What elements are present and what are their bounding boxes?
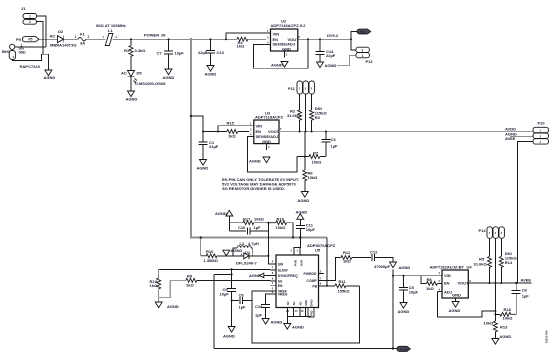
- svg-text:P11: P11: [288, 86, 296, 91]
- junction dots on rail: [130, 38, 132, 40]
- svg-text:22µF: 22µF: [326, 53, 336, 58]
- inductor L2 4.7uH: [233, 241, 259, 256]
- svg-text:10µF: 10µF: [409, 290, 419, 295]
- svg-text:R12: R12: [343, 250, 351, 255]
- capacitor C1 22uF: [199, 132, 219, 160]
- svg-text:GND: GND: [452, 292, 461, 297]
- svg-text:10kΩ: 10kΩ: [308, 175, 319, 180]
- svg-text:ADP7118ACPZ-5.2: ADP7118ACPZ-5.2: [271, 23, 307, 28]
- svg-text:R14: R14: [505, 260, 513, 265]
- wire J1 pin1 to vertical: [37, 16, 47, 47]
- capacitor C8 1uF: [232, 293, 252, 310]
- svg-text:1: 1: [362, 54, 364, 58]
- wire PVIN gray vertical to FB: [326, 238, 328, 286]
- wire gray R9 ground jog: [159, 280, 171, 297]
- svg-text:AGND: AGND: [249, 273, 261, 278]
- svg-text:1µF: 1µF: [331, 144, 339, 149]
- svg-text:1kΩ: 1kΩ: [228, 134, 236, 139]
- svg-text:TLMS1000-GS08: TLMS1000-GS08: [134, 81, 166, 86]
- svg-text:10kΩ: 10kΩ: [503, 315, 514, 320]
- svg-text:R9: R9: [187, 273, 193, 278]
- capacitor C13 22uF: [198, 39, 225, 65]
- svg-text:AGND: AGND: [296, 209, 308, 214]
- svg-text:1kΩ: 1kΩ: [237, 44, 245, 49]
- capacitor C16 1uF: [229, 223, 268, 264]
- svg-text:AGND: AGND: [298, 198, 310, 203]
- svg-text:VIN: VIN: [444, 273, 451, 278]
- svg-text:1: 1: [29, 15, 31, 19]
- wire EN drop + R8: [421, 276, 427, 284]
- svg-text:P5: P5: [16, 37, 22, 42]
- wire ADJ loop: [437, 292, 495, 318]
- connector P14: [479, 227, 505, 239]
- svg-text:SYNC/FREQ: SYNC/FREQ: [278, 274, 298, 278]
- svg-text:AGND: AGND: [205, 72, 217, 77]
- wire P14 pin2 to R13 node: [494, 283, 496, 321]
- resistor R6 10k: [303, 170, 318, 192]
- svg-text:U5: U5: [315, 248, 321, 253]
- wire 5V2 tag branch: [351, 32, 360, 40]
- svg-text:AGND: AGND: [399, 265, 411, 270]
- svg-text:VIN: VIN: [273, 32, 280, 37]
- svg-text:GND: GND: [19, 51, 27, 55]
- battery holder BH1 RAPC722X: [2, 44, 41, 69]
- wire gray POWER_IN feed (bottom): [190, 237, 327, 239]
- svg-text:31.6kΩ: 31.6kΩ: [474, 261, 488, 266]
- svg-text:10µF: 10µF: [220, 292, 230, 297]
- ground tag AGND (SYNC): [249, 273, 271, 278]
- resistor R7 10k: [297, 151, 326, 165]
- svg-text:GND: GND: [304, 300, 308, 306]
- svg-text:3A: 3A: [80, 41, 85, 46]
- ground AGND (C5): [398, 303, 410, 314]
- wire POWER_IN rail: [113, 38, 238, 40]
- svg-text:VREG: VREG: [278, 293, 288, 297]
- ground AGND (R13): [492, 334, 511, 344]
- svg-text:VIN: VIN: [256, 123, 263, 128]
- svg-text:VOUT: VOUT: [458, 281, 470, 286]
- svg-text:AGND: AGND: [398, 309, 410, 314]
- svg-text:P12: P12: [366, 59, 374, 64]
- resistor R10 1.35M: [201, 249, 233, 263]
- capacitor C9 10uF: [220, 268, 237, 326]
- wire GND bus under U5: [287, 316, 311, 318]
- svg-text:10µF: 10µF: [306, 227, 316, 232]
- wire VIN loop U2: [226, 33, 266, 39]
- capacitor C6 1uF: [512, 283, 530, 314]
- svg-text:1µF: 1µF: [255, 313, 263, 318]
- svg-text:AVEE: AVEE: [521, 278, 532, 283]
- svg-text:AC: AC: [50, 34, 56, 39]
- wire gray AVDD rail: [279, 131, 533, 133]
- svg-text:16101-006: 16101-006: [545, 330, 549, 343]
- capacitor C5 10uF: [399, 276, 419, 303]
- svg-text:AGND: AGND: [292, 325, 304, 330]
- svg-text:AGND: AGND: [223, 334, 235, 339]
- wire SENSE loop U3: [248, 137, 298, 172]
- wire jack SIG to node: [15, 46, 46, 48]
- svg-text:PAD: PAD: [309, 310, 313, 315]
- svg-text:EN: EN: [278, 284, 283, 288]
- svg-text:A: A: [241, 252, 243, 256]
- svg-text:PGND: PGND: [400, 348, 408, 352]
- svg-text:31.6kΩ: 31.6kΩ: [287, 113, 301, 118]
- ground AGND (C12): [390, 262, 411, 270]
- svg-text:ADP7118ACPZ: ADP7118ACPZ: [255, 115, 284, 120]
- ground AGND (D5): [126, 91, 138, 102]
- svg-text:AC: AC: [121, 71, 127, 76]
- svg-text:C8: C8: [239, 293, 245, 298]
- svg-text:GND: GND: [262, 139, 271, 144]
- svg-text:NC: NC: [286, 301, 290, 305]
- wire SLEW line: [159, 268, 271, 270]
- svg-text:10kΩ: 10kΩ: [312, 160, 323, 165]
- wire P11 pin1: [299, 94, 301, 110]
- svg-text:10kΩ: 10kΩ: [484, 321, 495, 326]
- svg-text:22µF: 22µF: [209, 144, 219, 149]
- op-amp U4 ADP7182AUJZ: [430, 264, 474, 301]
- svg-text:NC: NC: [292, 301, 296, 305]
- resistor R18b 10k: [495, 307, 516, 320]
- svg-text:AGND: AGND: [325, 63, 337, 68]
- svg-text:ADP5070ACPZ: ADP5070ACPZ: [307, 243, 336, 248]
- wire gray POWER_IN feed (vertical): [190, 39, 192, 237]
- wire U3 VIN loop: [218, 126, 249, 132]
- resistor R15 1k: [227, 121, 250, 139]
- wire R6 column: [304, 132, 306, 171]
- svg-text:FB: FB: [313, 284, 318, 288]
- svg-text:L1: L1: [108, 28, 113, 33]
- svg-text:SLEW: SLEW: [278, 268, 289, 272]
- svg-text:10kΩ: 10kΩ: [276, 225, 287, 230]
- ground AGND (jack): [44, 70, 56, 80]
- ground AGND (U2): [271, 62, 288, 68]
- svg-text:3.3kΩ: 3.3kΩ: [135, 48, 147, 53]
- wire P5 to rail: [39, 38, 57, 40]
- resistor R18 10k (snubber): [267, 217, 294, 239]
- resistor R1 3.3k: [124, 39, 146, 70]
- svg-text:J1: J1: [21, 6, 26, 11]
- resistor R3 115k DNI: [310, 94, 328, 133]
- svg-text:DFLS240-7: DFLS240-7: [236, 261, 257, 266]
- diode D1 DFLS240-7: [233, 250, 271, 266]
- svg-text:COMP: COMP: [307, 279, 318, 283]
- ground AGND (C14): [317, 62, 337, 68]
- svg-text:AGND: AGND: [271, 63, 283, 68]
- capacitor C7 10uF: [157, 39, 185, 69]
- capacitor C10 1uF: [255, 304, 270, 319]
- svg-text:1µF: 1µF: [239, 305, 247, 310]
- svg-text:MBRA140T3G: MBRA140T3G: [50, 43, 76, 48]
- svg-text:C13: C13: [217, 50, 225, 55]
- svg-text:ADP7182AUJZ-BT: ADP7182AUJZ-BT: [430, 264, 465, 269]
- svg-text:DV5.2: DV5.2: [327, 33, 339, 38]
- wire PVIN drop to U5: [294, 238, 301, 256]
- wire P14 pin2: [494, 238, 496, 283]
- svg-text:10µF: 10µF: [175, 51, 185, 56]
- svg-text:R1: R1: [124, 48, 130, 53]
- svg-text:PWRGD: PWRGD: [304, 272, 318, 276]
- svg-text:RAPC722X: RAPC722X: [20, 64, 41, 69]
- svg-text:SW: SW: [278, 263, 284, 267]
- wire DV5.2 rail: [302, 38, 351, 40]
- svg-text:AVIN: AVIN: [299, 260, 303, 266]
- capacitor C12 47000pF: [370, 249, 393, 268]
- wire branch to U3 input: [191, 116, 203, 132]
- svg-text:AGND: AGND: [231, 248, 243, 253]
- svg-text:C3: C3: [331, 137, 337, 142]
- svg-text:1µF: 1µF: [254, 225, 262, 230]
- LED D5 TLMS1000-GS08: [121, 71, 166, 92]
- ground AGND (C13): [205, 66, 217, 77]
- svg-text:EN: EN: [444, 281, 450, 286]
- op-amp U3 ADP7118ACPZ: [249, 111, 284, 151]
- svg-text:P5: P5: [29, 38, 33, 42]
- svg-text:AGND: AGND: [500, 334, 512, 339]
- svg-text:F1: F1: [80, 32, 85, 37]
- ground AGND (R19): [155, 297, 179, 309]
- wire FB line: [324, 285, 335, 287]
- connector P11: [288, 81, 314, 94]
- wire VREG to C10: [266, 294, 276, 305]
- svg-text:R18: R18: [504, 307, 512, 312]
- wire U4 VIN line: [393, 275, 442, 277]
- wire AGND drop column: [392, 270, 394, 349]
- svg-text:1kΩ: 1kΩ: [426, 286, 434, 291]
- note text EN pin: [222, 177, 299, 191]
- resistor R9 1k: [170, 273, 270, 287]
- resistor R11 155k: [335, 279, 360, 293]
- svg-text:5V2: 5V2: [361, 30, 367, 34]
- svg-text:2: 2: [362, 49, 364, 53]
- ground AGND (U3): [249, 157, 270, 164]
- svg-text:10kΩ: 10kΩ: [254, 217, 265, 222]
- svg-text:C12: C12: [370, 249, 378, 254]
- svg-text:2: 2: [88, 35, 90, 39]
- svg-text:U4: U4: [467, 264, 473, 269]
- svg-text:D5: D5: [137, 71, 143, 76]
- wire SENSE feedback loop U2: [253, 39, 308, 68]
- wire fuse to L1: [86, 38, 106, 40]
- resistor R5 31.6k: [474, 238, 492, 283]
- svg-text:AGND: AGND: [449, 308, 461, 313]
- connector P12: [356, 47, 373, 64]
- svg-text:D2: D2: [58, 29, 64, 34]
- regulator U5 ADP5070ACPZ: [271, 243, 336, 317]
- wire to P12: [351, 39, 356, 50]
- wire P12 pin1 to AGND: [350, 55, 356, 65]
- wire VREF loop rectangle: [252, 286, 360, 343]
- resistor R13 10k: [484, 321, 509, 339]
- svg-text:ADJ: ADJ: [444, 289, 452, 294]
- svg-text:1µF: 1µF: [522, 293, 530, 298]
- wire jack GND loop: [12, 54, 48, 70]
- wire from gray to R10: [200, 238, 202, 256]
- wire D2 to fuse: [64, 38, 78, 40]
- wire J1 pin2 to vertical: [37, 22, 44, 55]
- svg-text:1.35MΩ: 1.35MΩ: [204, 258, 219, 263]
- wire negative rail bottom: [214, 348, 400, 350]
- svg-text:VOUT: VOUT: [288, 37, 300, 42]
- svg-text:C7: C7: [157, 51, 163, 56]
- svg-text:GND: GND: [282, 46, 291, 51]
- ground AGND (U4): [449, 302, 461, 313]
- wire P11 pin2: [305, 94, 307, 132]
- svg-text:L2: L2: [240, 241, 245, 246]
- ground AGND (C7): [163, 69, 175, 80]
- wire SS column / x214 rail: [213, 274, 215, 348]
- svg-text:AGND: AGND: [126, 97, 138, 102]
- capacitor C14 22uF: [316, 38, 336, 62]
- svg-text:1kΩ: 1kΩ: [343, 259, 351, 264]
- svg-text:2: 2: [29, 20, 31, 24]
- svg-text:POWER_IN: POWER_IN: [144, 33, 165, 38]
- svg-text:AGND: AGND: [271, 320, 283, 325]
- net tag 5V2: [357, 29, 371, 34]
- svg-text:NC: NC: [298, 301, 302, 305]
- ground AGND (C1): [197, 160, 209, 171]
- resistor R14 115k DNI: [499, 238, 517, 283]
- svg-text:AGND: AGND: [197, 166, 209, 171]
- svg-text:AGND: AGND: [44, 75, 56, 80]
- ground AGND (C10): [262, 319, 282, 325]
- wire EN line: [203, 131, 227, 133]
- svg-text:VOUT: VOUT: [268, 129, 280, 134]
- diode D2 MBRA140T3G: [50, 29, 77, 48]
- ground AGND flipped (snubber): [215, 210, 233, 231]
- svg-text:AGND: AGND: [163, 75, 175, 80]
- svg-text:AGND: AGND: [167, 304, 179, 309]
- svg-text:AVEE: AVEE: [505, 136, 516, 141]
- ground AGND flipped (C11): [296, 209, 308, 225]
- ground AGND (R6): [298, 192, 310, 204]
- svg-text:1kΩ: 1kΩ: [186, 283, 194, 288]
- ferrite bead L1 60ohm AT 100MHz: [96, 23, 126, 46]
- svg-text:4.7µH: 4.7µH: [248, 241, 259, 246]
- capacitor C3 1uF: [322, 131, 339, 157]
- svg-text:C6: C6: [522, 288, 528, 293]
- ground AGND (U5): [284, 324, 304, 330]
- svg-text:AGND: AGND: [215, 211, 227, 216]
- capacitor C11 10uF: [296, 223, 316, 239]
- connector J1: [21, 6, 37, 24]
- fuse F1 3A: [75, 32, 90, 46]
- resistor R4 1k: [237, 37, 267, 48]
- svg-text:R3: R3: [315, 115, 321, 120]
- ground AGND (C9): [223, 327, 235, 339]
- wire COMP riser: [324, 258, 341, 281]
- net tag PGND: [397, 346, 411, 351]
- svg-text:47000pF: 47000pF: [374, 264, 391, 269]
- wire AVEE output line: [473, 282, 532, 284]
- svg-text:155kΩ: 155kΩ: [338, 288, 351, 293]
- svg-text:R15: R15: [227, 121, 235, 126]
- op-amp U2 ADP7118ACPZ-5.2: [266, 19, 306, 58]
- svg-text:EPAD: EPAD: [310, 299, 314, 306]
- resistor R19 1k: [150, 269, 161, 302]
- svg-text:R13: R13: [500, 325, 508, 330]
- connector tag P5: [16, 37, 39, 48]
- ground AGND tag (slew node): [223, 248, 243, 256]
- svg-text:SO RESISTOR DIVIDER IS USED.: SO RESISTOR DIVIDER IS USED.: [222, 186, 285, 191]
- svg-text:PVIN: PVIN: [293, 260, 297, 266]
- svg-text:AGND: AGND: [249, 159, 261, 164]
- svg-text:1: 1: [75, 35, 77, 39]
- svg-text:P10: P10: [538, 121, 546, 126]
- wire gray AGND stub P12: [337, 65, 350, 67]
- resistor R17 10k: [229, 217, 268, 225]
- resistor R12 1k: [341, 250, 371, 264]
- svg-text:C16: C16: [238, 225, 246, 230]
- connector P10: [533, 121, 549, 145]
- resistor R8 1k: [426, 277, 442, 291]
- resistor R2 31.6k: [287, 109, 302, 133]
- svg-text:P14: P14: [479, 228, 487, 233]
